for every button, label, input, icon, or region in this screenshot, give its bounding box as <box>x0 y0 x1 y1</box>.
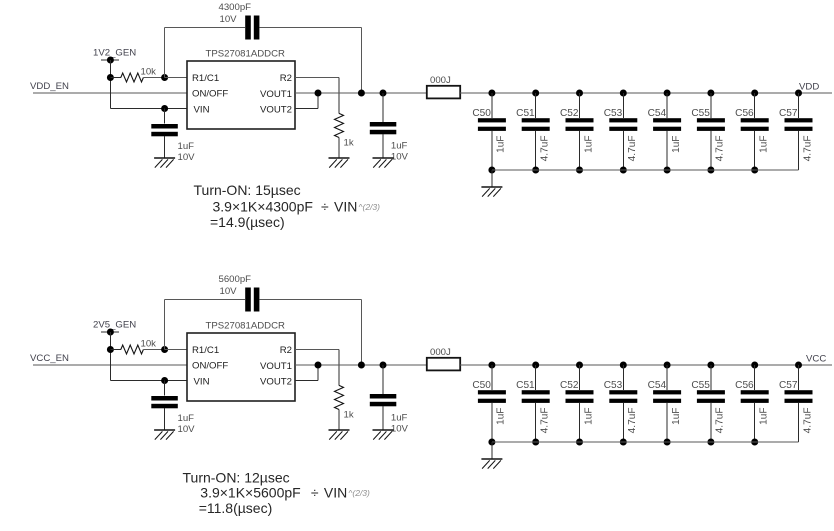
capacitor C50 stem bottom <box>491 131 493 170</box>
capacitor C53 stem top <box>622 93 624 118</box>
svg-text:1uF: 1uF <box>178 141 195 152</box>
ground input cap <box>154 429 175 431</box>
svg-text:÷: ÷ <box>311 485 319 501</box>
svg-text:C55: C55 <box>691 108 710 119</box>
wire C loop top right <box>259 299 361 301</box>
wire 2V5_GEN vertical <box>109 332 111 381</box>
wire C loop top left <box>165 299 246 301</box>
capacitor input 1uF lower stem <box>164 136 166 158</box>
junction C55 bottom <box>707 439 714 446</box>
wire VDD rail <box>492 92 832 94</box>
capacitor C52 plates <box>566 390 594 394</box>
svg-text:C54: C54 <box>648 380 667 391</box>
capacitor C54 stem top <box>666 365 668 390</box>
wire R2 to 1k <box>295 77 339 79</box>
svg-text:C52: C52 <box>560 108 579 119</box>
wire C loop top left <box>165 27 246 29</box>
svg-text:C54: C54 <box>648 108 667 119</box>
svg-text:1uF: 1uF <box>671 408 682 425</box>
capacitor C56 stem top <box>754 365 756 390</box>
junction VOUT <box>315 362 322 369</box>
svg-text:2V5_GEN: 2V5_GEN <box>93 320 136 331</box>
junction C52 top <box>576 90 583 97</box>
capacitor output 1uF stem <box>382 365 384 394</box>
resistor 1k <box>335 113 344 137</box>
capacitor C51 stem top <box>535 93 537 118</box>
junction C51 bottom <box>532 167 539 174</box>
ground 1k <box>329 429 350 431</box>
capacitor C51 plates <box>522 118 550 122</box>
svg-text:VCC_EN: VCC_EN <box>30 353 69 364</box>
svg-text:1V2_GEN: 1V2_GEN <box>93 48 136 59</box>
wire VIN horizontal <box>110 380 187 382</box>
svg-text:C53: C53 <box>604 108 623 119</box>
svg-text:=14.9(µsec): =14.9(µsec) <box>210 214 285 230</box>
svg-text:4.7uF: 4.7uF <box>627 408 638 434</box>
junction VOUT <box>315 90 322 97</box>
capacitor 5600pF plates <box>245 288 251 312</box>
svg-text:Turn-ON: 15µsec: Turn-ON: 15µsec <box>194 182 301 198</box>
node 2V5_GEN tap <box>101 331 119 333</box>
svg-text:C57: C57 <box>779 108 798 119</box>
junction C51 bottom <box>532 439 539 446</box>
svg-text:10V: 10V <box>391 152 409 163</box>
wire R1/C1 to IC <box>165 77 187 79</box>
svg-text:4.7uF: 4.7uF <box>715 408 726 434</box>
svg-text:10V: 10V <box>220 286 238 297</box>
svg-text:10k: 10k <box>141 339 157 350</box>
capacitor C52 stem bottom <box>579 403 581 442</box>
capacitor C56 stem bottom <box>754 131 756 170</box>
svg-text:10V: 10V <box>178 424 196 435</box>
capacitor input 1uF lower stem <box>164 408 166 430</box>
svg-text:VIN: VIN <box>194 105 210 116</box>
capacitor output 1uF plates <box>370 122 397 127</box>
junction C55 bottom <box>707 167 714 174</box>
junction C52 bottom <box>576 439 583 446</box>
capacitor input 1uF plates <box>151 396 178 401</box>
svg-text:000J: 000J <box>430 347 451 358</box>
svg-text:R2: R2 <box>280 345 292 356</box>
capacitor C55 plates <box>697 118 725 122</box>
svg-text:C57: C57 <box>779 380 798 391</box>
svg-text:VCC: VCC <box>806 354 826 365</box>
capacitor C54 stem bottom <box>666 131 668 170</box>
wire VIN horizontal <box>110 108 187 110</box>
capacitor C52 stem bottom <box>579 131 581 170</box>
junction C56 bottom <box>751 439 758 446</box>
capacitor C52 plates <box>566 118 594 122</box>
svg-text:C55: C55 <box>691 380 710 391</box>
capacitor C57 stem bottom <box>798 131 800 170</box>
capacitor C54 stem top <box>666 93 668 118</box>
svg-text:VOUT2: VOUT2 <box>260 104 292 115</box>
IC U TPS27081ADDCR box <box>187 333 295 401</box>
svg-text:VIN: VIN <box>324 485 347 501</box>
svg-text:4.7uF: 4.7uF <box>715 136 726 162</box>
capacitor 4300pF plates <box>245 16 251 40</box>
wire R2 to 1k <box>295 349 339 351</box>
wire 1k to ground <box>338 138 340 159</box>
junction VIN cap <box>161 377 168 384</box>
node 1V2_GEN tap <box>101 59 119 61</box>
svg-text:1uF: 1uF <box>583 136 594 153</box>
junction C57 top <box>795 362 802 369</box>
svg-text:R1/C1: R1/C1 <box>192 73 219 84</box>
svg-text:C51: C51 <box>516 108 535 119</box>
wire VCC rail <box>492 364 832 366</box>
junction 1V2_GEN/R <box>107 74 114 81</box>
capacitor C51 stem bottom <box>535 131 537 170</box>
svg-text:1uF: 1uF <box>759 408 770 425</box>
capacitor C52 stem top <box>579 93 581 118</box>
svg-text:4300pF: 4300pF <box>219 2 252 13</box>
resistor R 10k <box>110 77 120 79</box>
svg-text:C52: C52 <box>560 380 579 391</box>
svg-text:VOUT2: VOUT2 <box>260 376 292 387</box>
junction C51 top <box>532 90 539 97</box>
wire bank bottom rail <box>492 169 799 171</box>
svg-text:R1/C1: R1/C1 <box>192 345 219 356</box>
junction R1/C1 node <box>161 346 168 353</box>
capacitor C55 stem top <box>710 93 712 118</box>
capacitor C57 stem bottom <box>798 403 800 442</box>
wire R1/C1 to IC <box>165 349 187 351</box>
svg-text:^(2/3): ^(2/3) <box>348 488 370 498</box>
capacitor C57 stem top <box>798 365 800 390</box>
wire bank ground stem <box>491 170 493 187</box>
junction VIN cap <box>161 105 168 112</box>
capacitor output 1uF stem <box>382 93 384 122</box>
svg-text:1k: 1k <box>344 138 354 149</box>
junction C53 bottom <box>620 167 627 174</box>
junction C loop <box>358 90 365 97</box>
junction C50 bottom <box>488 439 495 446</box>
svg-text:1uF: 1uF <box>178 413 195 424</box>
svg-text:10k: 10k <box>141 67 157 78</box>
junction C53 top <box>620 362 627 369</box>
resistor R 10k <box>110 349 120 351</box>
svg-text:=11.8(µsec): =11.8(µsec) <box>199 500 273 516</box>
svg-text:VOUT1: VOUT1 <box>260 361 292 372</box>
capacitor C52 stem top <box>579 365 581 390</box>
svg-text:10V: 10V <box>391 424 409 435</box>
svg-text:1uF: 1uF <box>496 408 507 425</box>
ground bank <box>481 458 502 460</box>
capacitor C54 plates <box>653 390 681 394</box>
capacitor C53 stem bottom <box>622 131 624 170</box>
capacitor C53 stem bottom <box>622 403 624 442</box>
svg-text:1uF: 1uF <box>391 141 408 152</box>
junction C55 top <box>707 362 714 369</box>
junction C57 top <box>795 90 802 97</box>
svg-text:C51: C51 <box>516 380 535 391</box>
svg-text:VIN: VIN <box>334 199 357 215</box>
svg-text:VDD: VDD <box>799 82 819 93</box>
wire bank ground stem <box>491 442 493 459</box>
svg-text:10V: 10V <box>178 152 196 163</box>
svg-text:Turn-ON: 12µsec: Turn-ON: 12µsec <box>183 469 290 485</box>
wire C loop left vertical <box>164 300 166 350</box>
wire VOUT1 rail <box>295 364 427 366</box>
junction C52 top <box>576 362 583 369</box>
capacitor C51 stem bottom <box>535 403 537 442</box>
capacitor C50 stem top <box>491 93 493 118</box>
svg-text:3.9×1K×4300pF: 3.9×1K×4300pF <box>213 199 313 215</box>
wire VOUT1 rail <box>295 92 427 94</box>
svg-text:÷: ÷ <box>321 199 329 215</box>
capacitor C55 stem bottom <box>710 131 712 170</box>
wire VOUT2 jog <box>295 380 318 382</box>
junction C loop <box>358 362 365 369</box>
resistor 000J <box>427 86 460 99</box>
wire 000J to bank <box>460 92 492 94</box>
junction C54 bottom <box>664 439 671 446</box>
capacitor C50 stem bottom <box>491 403 493 442</box>
junction C50 bottom <box>488 167 495 174</box>
svg-text:TPS27081ADDCR: TPS27081ADDCR <box>206 321 286 332</box>
junction C53 top <box>620 90 627 97</box>
wire VDD_EN to ON/OFF pin <box>33 92 187 94</box>
capacitor C54 plates <box>653 118 681 122</box>
junction output cap <box>380 362 387 369</box>
svg-text:1uF: 1uF <box>759 136 770 153</box>
capacitor output 1uF lower stem <box>382 134 384 158</box>
capacitor C56 plates <box>741 118 769 122</box>
capacitor C53 plates <box>609 390 637 394</box>
svg-text:000J: 000J <box>430 75 451 86</box>
capacitor C55 stem top <box>710 365 712 390</box>
wire bank bottom rail <box>492 441 799 443</box>
ground input cap <box>154 157 175 159</box>
svg-text:10V: 10V <box>220 14 238 25</box>
ground 1k <box>329 157 350 159</box>
wire VOUT2 jog <box>295 108 318 110</box>
junction C56 top <box>751 362 758 369</box>
ground output cap <box>373 429 394 431</box>
svg-text:1k: 1k <box>344 410 354 421</box>
capacitor output 1uF lower stem <box>382 406 384 430</box>
junction C54 top <box>664 90 671 97</box>
capacitor C57 plates <box>785 118 813 122</box>
svg-text:C53: C53 <box>604 380 623 391</box>
capacitor C51 plates <box>522 390 550 394</box>
svg-text:4.7uF: 4.7uF <box>802 408 813 434</box>
svg-text:1uF: 1uF <box>671 136 682 153</box>
capacitor C57 stem top <box>798 93 800 118</box>
resistor 000J <box>427 358 460 371</box>
capacitor output 1uF plates <box>370 394 397 399</box>
capacitor C53 stem top <box>622 365 624 390</box>
svg-text:ON/OFF: ON/OFF <box>192 361 228 372</box>
capacitor input 1uF plates <box>151 124 178 129</box>
capacitor C53 plates <box>609 118 637 122</box>
capacitor input 1uF stem <box>164 109 166 124</box>
IC U TPS27081ADDCR box <box>187 61 295 129</box>
junction C50 top <box>488 362 495 369</box>
svg-text:VOUT1: VOUT1 <box>260 89 292 100</box>
capacitor input 1uF stem <box>164 381 166 396</box>
svg-text:C56: C56 <box>735 380 754 391</box>
wire 000J to bank <box>460 364 492 366</box>
junction C53 bottom <box>620 439 627 446</box>
wire 1V2_GEN vertical <box>109 60 111 109</box>
svg-text:5600pF: 5600pF <box>219 274 252 285</box>
wire 1k to ground <box>338 410 340 431</box>
junction C54 bottom <box>664 167 671 174</box>
junction C50 top <box>488 90 495 97</box>
capacitor C57 plates <box>785 390 813 394</box>
junction R1/C1 node <box>161 74 168 81</box>
svg-text:4.7uF: 4.7uF <box>627 136 638 162</box>
capacitor C56 stem bottom <box>754 403 756 442</box>
svg-text:^(2/3): ^(2/3) <box>359 202 381 212</box>
wire C loop left vertical <box>164 28 166 78</box>
junction output cap <box>380 90 387 97</box>
junction C56 top <box>751 90 758 97</box>
capacitor C50 plates <box>478 390 506 394</box>
svg-text:R2: R2 <box>280 73 292 84</box>
junction C55 top <box>707 90 714 97</box>
capacitor C56 stem top <box>754 93 756 118</box>
capacitor C54 stem bottom <box>666 403 668 442</box>
svg-text:4.7uF: 4.7uF <box>540 408 551 434</box>
svg-text:C50: C50 <box>472 380 491 391</box>
wire C loop top right <box>259 27 361 29</box>
svg-text:4.7uF: 4.7uF <box>540 136 551 162</box>
svg-text:3.9×1K×5600pF: 3.9×1K×5600pF <box>200 485 300 501</box>
ground output cap <box>373 157 394 159</box>
junction 2V5_GEN/R <box>107 346 114 353</box>
junction C52 bottom <box>576 167 583 174</box>
capacitor C55 stem bottom <box>710 403 712 442</box>
capacitor C50 plates <box>478 118 506 122</box>
svg-text:1uF: 1uF <box>583 408 594 425</box>
svg-text:VIN: VIN <box>194 377 210 388</box>
capacitor C56 plates <box>741 390 769 394</box>
capacitor C50 stem top <box>491 365 493 390</box>
svg-text:C50: C50 <box>472 108 491 119</box>
ground bank <box>481 186 502 188</box>
svg-text:VDD_EN: VDD_EN <box>30 81 69 92</box>
svg-text:1uF: 1uF <box>496 136 507 153</box>
resistor 1k <box>335 385 344 409</box>
capacitor C55 plates <box>697 390 725 394</box>
capacitor C51 stem top <box>535 365 537 390</box>
svg-text:4.7uF: 4.7uF <box>802 136 813 162</box>
wire VCC_EN to ON/OFF pin <box>33 364 187 366</box>
svg-text:TPS27081ADDCR: TPS27081ADDCR <box>206 49 286 60</box>
wire C loop right vertical <box>360 300 362 366</box>
junction C54 top <box>664 362 671 369</box>
svg-text:1uF: 1uF <box>391 413 408 424</box>
junction C51 top <box>532 362 539 369</box>
svg-text:ON/OFF: ON/OFF <box>192 89 228 100</box>
wire C loop right vertical <box>360 28 362 94</box>
junction C56 bottom <box>751 167 758 174</box>
svg-text:C56: C56 <box>735 108 754 119</box>
